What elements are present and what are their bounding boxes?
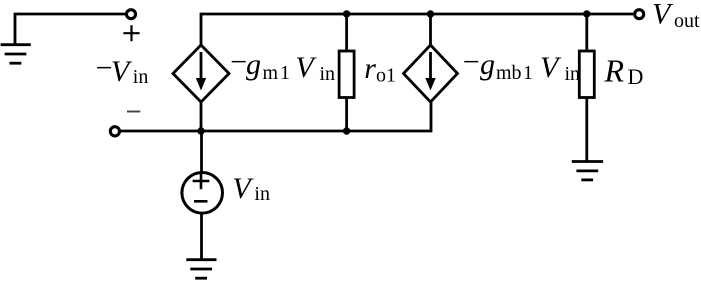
- ground G2 (below Vin source): [186, 260, 216, 279]
- wire top rail: [201, 14, 633, 45]
- svg-text:in: in: [320, 63, 336, 85]
- input - terminal (open circle): [110, 127, 119, 136]
- wire bottom rail: [121, 102, 431, 131]
- node dot D (top rail at gmb1 source): [427, 10, 434, 17]
- voltage source Vin (circle with plus minus): [182, 173, 223, 214]
- node dot E (top rail at RD): [583, 10, 590, 17]
- output terminal Vout (open circle): [635, 10, 644, 19]
- svg-text:−: −: [463, 46, 480, 79]
- wire ro1 top lead: [345, 14, 348, 51]
- plus polarity mark: [123, 25, 139, 41]
- svg-text:out: out: [674, 10, 700, 32]
- input + terminal (open circle): [127, 10, 136, 19]
- svg-text:g: g: [246, 48, 261, 81]
- svg-text:1: 1: [280, 62, 290, 84]
- label -gm1Vin: [230, 46, 335, 86]
- svg-text:mb: mb: [496, 62, 522, 84]
- minus polarity mark: [127, 111, 140, 113]
- svg-text:R: R: [604, 53, 625, 89]
- wire top-left from ground to + terminal: [15, 14, 125, 44]
- node dot C (bottom rail at ro1): [343, 127, 350, 134]
- resistor RD (rectangle): [579, 51, 594, 98]
- svg-text:m: m: [263, 62, 279, 84]
- svg-text:in: in: [254, 183, 270, 205]
- wire from node A down to source Vin: [200, 131, 203, 172]
- label Vout: [652, 0, 700, 32]
- svg-text:in: in: [565, 63, 581, 85]
- node dot B (top rail at ro1): [343, 10, 350, 17]
- label ro1: [364, 52, 396, 87]
- svg-text:1: 1: [523, 62, 533, 84]
- svg-text:r: r: [364, 52, 376, 85]
- svg-text:−: −: [230, 46, 247, 79]
- wire RD bottom lead to ground: [585, 97, 588, 162]
- node dot A (bottom rail at x=201): [197, 127, 204, 134]
- ground G1 (top-left): [1, 45, 31, 64]
- wire from G1 bottom to bottom rail: [200, 102, 203, 131]
- label -Vin (input voltage): [96, 52, 149, 89]
- label Vin (source): [232, 172, 270, 205]
- svg-text:g: g: [480, 48, 495, 81]
- svg-text:D: D: [628, 64, 644, 89]
- wire from top rail to G2 source top: [429, 14, 432, 45]
- wire RD top lead: [585, 14, 588, 51]
- ground G3 (below RD): [572, 162, 603, 180]
- dependent current source G1 (diamond -gm1Vin): [173, 45, 229, 102]
- wire ro1 bottom lead: [345, 97, 348, 131]
- svg-text:o1: o1: [376, 65, 396, 87]
- label RD: [604, 53, 644, 90]
- label -gmb1Vin: [463, 46, 580, 86]
- svg-text:in: in: [133, 66, 149, 88]
- resistor ro1 (rectangle): [339, 51, 354, 98]
- dependent current source G2 (diamond -gmb1Vin): [404, 45, 458, 102]
- wire from source Vin to ground G2: [200, 213, 203, 259]
